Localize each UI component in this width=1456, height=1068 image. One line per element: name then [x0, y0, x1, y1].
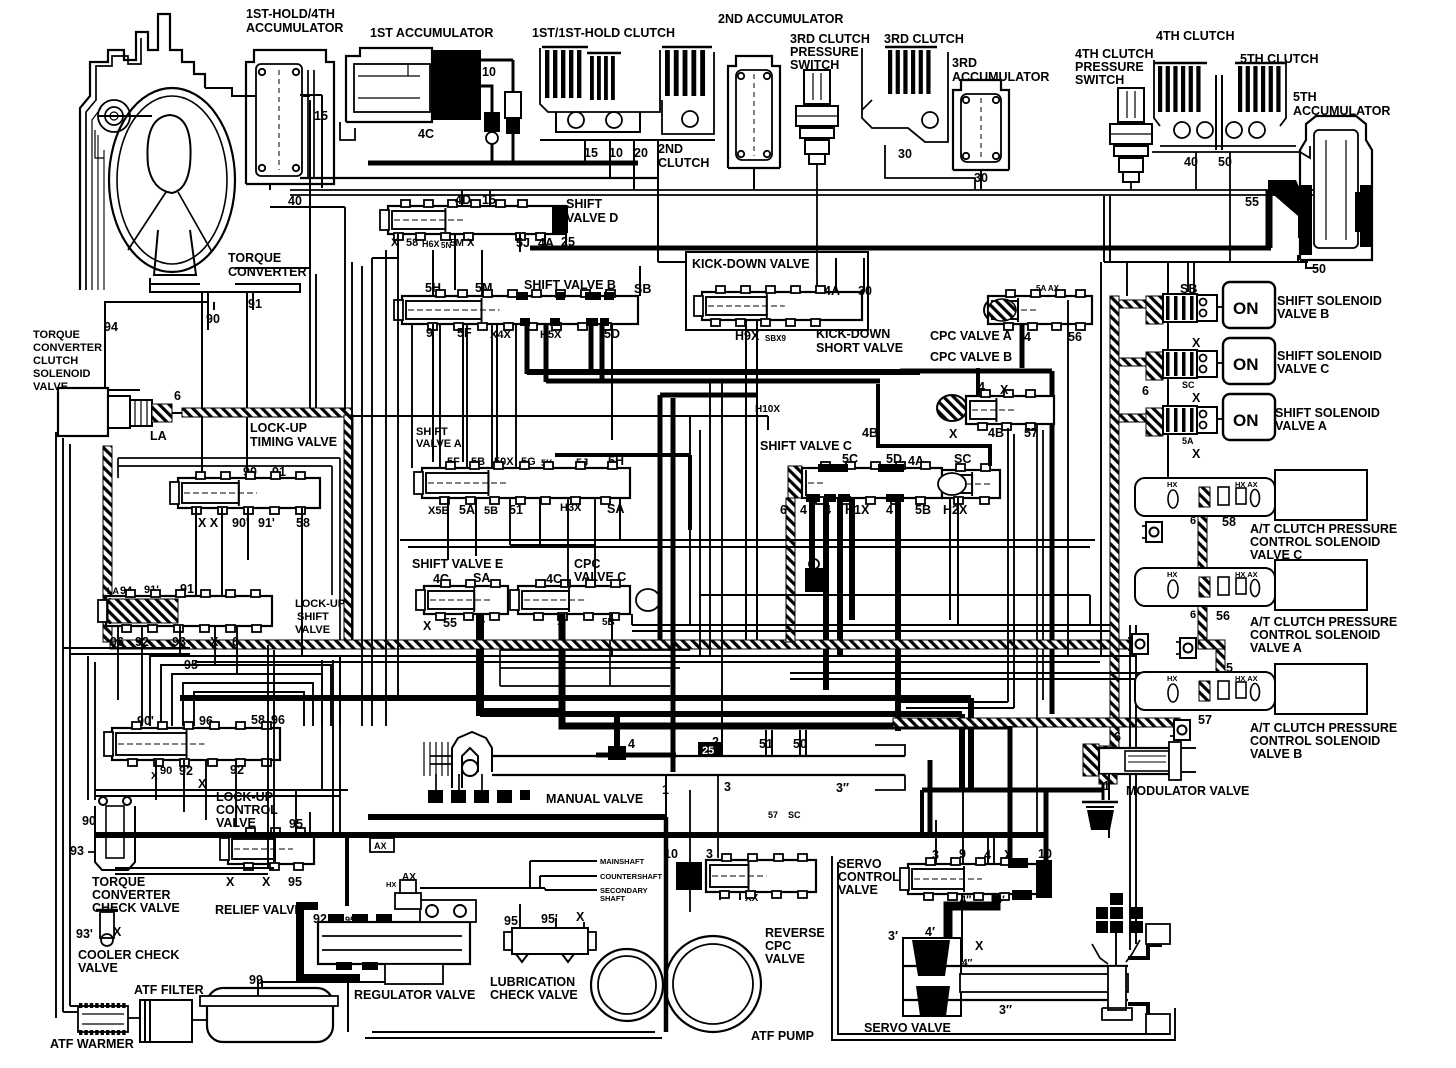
svg-text:SHIFT SOLENOID: SHIFT SOLENOID: [1277, 294, 1382, 308]
svg-text:SA: SA: [607, 502, 624, 516]
wires y625 pair: [632, 624, 1110, 626]
svg-text:10: 10: [1038, 847, 1052, 861]
wire 55 thick elbow: [1266, 190, 1273, 248]
svg-text:ON: ON: [1233, 355, 1259, 374]
wire thick x1010: [1008, 726, 1013, 862]
wire 99: [257, 980, 259, 996]
wire 10 drop: [481, 86, 492, 96]
wire 4th press switch drop: [1130, 182, 1132, 190]
svg-text:40: 40: [288, 194, 302, 208]
svg-text:CONVERTER: CONVERTER: [33, 342, 102, 354]
wires shift valve B down thin: [432, 324, 434, 462]
hatch elbow modulator: [1096, 746, 1112, 756]
solenoid valve TC clutch: [58, 388, 108, 436]
wire servo 4dblprime: [961, 894, 963, 962]
svg-text:25: 25: [561, 235, 575, 249]
svg-text:4TH CLUTCH: 4TH CLUTCH: [1075, 47, 1153, 61]
wire H10X: [250, 415, 768, 417]
hatch right band: [344, 415, 353, 640]
shift solenoid valve B: [1146, 296, 1163, 324]
CPC valve C: [518, 586, 630, 614]
fitting cpcs A2: [1180, 638, 1196, 658]
svg-text:15: 15: [482, 193, 496, 207]
cooler check valve symbol: [100, 912, 114, 938]
hatch branch sol2: [1119, 358, 1147, 366]
svg-text:X: X: [1192, 391, 1201, 405]
svg-text:HX: HX: [386, 880, 396, 889]
svg-text:CLUTCH: CLUTCH: [33, 355, 78, 367]
svg-text:1ST-HOLD/4TH: 1ST-HOLD/4TH: [246, 7, 335, 21]
wire 3rd clutch 30: [885, 145, 975, 190]
kick-down valve enclosure: [686, 252, 868, 330]
svg-text:COOLER CHECK: COOLER CHECK: [78, 948, 179, 962]
hatch long bottom band: [110, 640, 1136, 649]
shift valve D: [388, 206, 566, 234]
shift valve C: [788, 466, 802, 498]
svg-text:TORQUE: TORQUE: [228, 251, 281, 265]
wires manual valve risers: [721, 714, 723, 756]
svg-text:X: X: [467, 237, 475, 249]
kick-down valve: [702, 292, 862, 320]
svg-text:4A: 4A: [824, 284, 840, 298]
svg-text:90': 90': [232, 516, 249, 530]
5th accumulator: [1300, 116, 1372, 260]
svg-text:LOCK-UP: LOCK-UP: [216, 790, 273, 804]
shift valve E: [424, 586, 508, 614]
svg-text:ACCUMULATOR: ACCUMULATOR: [246, 21, 343, 35]
shift valve C right spool: [942, 470, 1000, 498]
fitting below valve C drop: [805, 568, 823, 592]
wire thick x673: [671, 398, 676, 772]
svg-text:15: 15: [314, 109, 328, 123]
wires shift valve D top: [461, 190, 463, 206]
svg-text:30: 30: [974, 171, 988, 185]
svg-text:10: 10: [609, 146, 623, 160]
2nd clutch pack: [662, 46, 712, 49]
wires y790 left pair: [95, 789, 348, 791]
svg-text:58: 58: [406, 237, 418, 249]
wire 91 from converter: [246, 292, 248, 478]
svg-text:4B: 4B: [862, 426, 878, 440]
svg-text:H6X: H6X: [422, 239, 440, 249]
svg-text:A/T CLUTCH PRESSURE: A/T CLUTCH PRESSURE: [1250, 615, 1397, 629]
wires servo control top: [935, 820, 937, 864]
svg-text:LA: LA: [150, 429, 167, 443]
wire thick elbow x660: [660, 393, 757, 398]
svg-text:4: 4: [1024, 330, 1031, 344]
wire left verticals: [62, 438, 64, 1012]
svg-text:4: 4: [886, 503, 893, 517]
wire 57 long drop: [1036, 424, 1038, 835]
svg-text:LOCK-UP: LOCK-UP: [295, 598, 345, 610]
svg-text:57: 57: [1198, 713, 1212, 727]
svg-text:2ND: 2ND: [658, 142, 683, 156]
svg-text:4′′: 4′′: [962, 958, 973, 969]
svg-text:H10X: H10X: [755, 404, 780, 415]
wires shift valve C thick drops: [809, 498, 815, 572]
lock-up shift valve: [106, 596, 272, 626]
svg-text:57: 57: [768, 810, 778, 820]
svg-text:H5X: H5X: [540, 329, 562, 341]
AT cpcs valve C: [1135, 478, 1275, 516]
AT cpcs valve B: [1135, 672, 1275, 710]
svg-text:X: X: [975, 939, 984, 953]
svg-text:6: 6: [1190, 609, 1196, 621]
svg-text:SBX9: SBX9: [765, 334, 786, 343]
svg-text:TORQUE: TORQUE: [33, 329, 80, 341]
AX box: [370, 838, 394, 852]
wire 50 y262: [1104, 261, 1308, 263]
manual valve 25 box: [698, 742, 722, 757]
svg-text:15: 15: [584, 146, 598, 160]
svg-text:A/T CLUTCH PRESSURE: A/T CLUTCH PRESSURE: [1250, 721, 1397, 735]
ATF filter: [140, 1000, 192, 1042]
hatch branch sol1: [1119, 300, 1147, 308]
svg-text:2ND ACCUMULATOR: 2ND ACCUMULATOR: [718, 12, 843, 26]
svg-text:LOCK-UP: LOCK-UP: [250, 421, 307, 435]
svg-text:1ST ACCUMULATOR: 1ST ACCUMULATOR: [370, 26, 493, 40]
svg-text:SC: SC: [1182, 380, 1195, 390]
fitting cpcs B: [1174, 720, 1190, 740]
wires center verticals: [689, 416, 691, 625]
servo control valve: [908, 864, 1038, 894]
svg-text:VALVE B: VALVE B: [1277, 307, 1329, 321]
ATF pump gear small: [591, 949, 663, 1021]
svg-text:SHIFT SOLENOID: SHIFT SOLENOID: [1277, 349, 1382, 363]
svg-text:SHIFT: SHIFT: [297, 611, 329, 623]
modulator lower fitting: [1108, 774, 1110, 800]
wire thick bus y248: [530, 246, 1271, 251]
svg-text:VALVE: VALVE: [838, 883, 878, 897]
wire y595: [700, 594, 1090, 596]
svg-text:10: 10: [482, 65, 496, 79]
wire 90 from converter: [201, 292, 203, 478]
svg-text:CONTROL SOLENOID: CONTROL SOLENOID: [1250, 628, 1380, 642]
svg-text:6: 6: [1190, 515, 1196, 527]
wire bottom border: [365, 1037, 662, 1039]
svg-text:HX: HX: [1167, 480, 1177, 489]
wire 50 drop: [1229, 152, 1231, 262]
wire accumulator down: [269, 184, 271, 190]
torque converter check valve: [95, 806, 135, 870]
svg-text:SHAFT: SHAFT: [600, 894, 625, 903]
svg-text:93': 93': [76, 927, 93, 941]
svg-text:4: 4: [800, 503, 807, 517]
shift valve B: [402, 296, 638, 324]
gear position squares: [1110, 893, 1123, 905]
2nd accumulator: [728, 56, 780, 168]
svg-text:H1X: H1X: [845, 503, 870, 517]
svg-text:VALVE D: VALVE D: [566, 211, 618, 225]
svg-text:COUNTERSHAFT: COUNTERSHAFT: [600, 872, 662, 881]
wire thick top bus y163: [368, 161, 638, 166]
hatch corner: [1198, 640, 1225, 649]
modulator valve: [1083, 744, 1099, 776]
svg-text:MAINSHAFT: MAINSHAFT: [600, 857, 645, 866]
svg-text:5B: 5B: [484, 505, 498, 517]
wire loops lock-up area: [150, 656, 340, 726]
svg-text:CPC VALVE A: CPC VALVE A: [930, 329, 1012, 343]
svg-text:CPC: CPC: [765, 939, 791, 953]
svg-text:REGULATOR VALVE: REGULATOR VALVE: [354, 988, 475, 1002]
reverse CPC valve: [706, 860, 816, 892]
wires shafts: [530, 860, 597, 862]
wire relief feed: [295, 790, 297, 834]
svg-text:95: 95: [504, 914, 518, 928]
wire kick-down feeds: [658, 261, 686, 263]
wires kick-down top: [835, 258, 837, 292]
wire pressure switch drop: [816, 164, 818, 292]
4th clutch pressure switch: [1118, 88, 1144, 122]
wires lockup control drops: [155, 760, 157, 800]
hatch left band: [103, 446, 112, 642]
svg-text:58: 58: [1222, 515, 1236, 529]
svg-text:5J: 5J: [516, 236, 530, 250]
relief valve: [228, 834, 314, 864]
wire thick 1 drop: [562, 614, 1010, 726]
svg-text:55: 55: [1245, 195, 1259, 209]
wire accumulator 15: [321, 95, 323, 188]
regulator valve: [300, 906, 360, 978]
svg-text:56: 56: [1216, 609, 1230, 623]
svg-text:CONVERTER: CONVERTER: [228, 265, 306, 279]
svg-text:5M: 5M: [450, 238, 464, 249]
3rd clutch pressure switch: [804, 70, 830, 104]
svg-text:A/T CLUTCH PRESSURE: A/T CLUTCH PRESSURE: [1250, 522, 1397, 536]
svg-text:AX: AX: [402, 872, 416, 883]
svg-text:90: 90: [160, 765, 172, 777]
3rd clutch: [885, 46, 937, 49]
svg-text:9: 9: [426, 326, 433, 340]
1st/1st-hold clutch: [542, 46, 588, 49]
wires valveA-E links: [567, 498, 569, 586]
svg-text:HX: HX: [1167, 570, 1177, 579]
svg-text:4: 4: [628, 737, 635, 751]
hatch band y722: [893, 718, 1180, 727]
fitting cpcs A1: [1132, 634, 1148, 654]
servo enclosure box: [832, 856, 1175, 1040]
svg-text:LA: LA: [107, 586, 119, 596]
svg-text:56: 56: [1068, 330, 1082, 344]
svg-text:1ST/1ST-HOLD CLUTCH: 1ST/1ST-HOLD CLUTCH: [532, 26, 675, 40]
svg-text:CONTROL SOLENOID: CONTROL SOLENOID: [1250, 734, 1380, 748]
svg-text:SHIFT VALVE E: SHIFT VALVE E: [412, 557, 503, 571]
svg-text:57: 57: [1024, 426, 1038, 440]
svg-text:6: 6: [1114, 730, 1121, 744]
svg-text:X: X: [1192, 336, 1201, 350]
wire thick bus y381: [546, 379, 880, 384]
svg-text:X5B: X5B: [428, 505, 449, 517]
svg-text:REVERSE: REVERSE: [765, 926, 825, 940]
svg-text:4C: 4C: [546, 572, 562, 586]
svg-text:SWITCH: SWITCH: [1075, 73, 1124, 87]
svg-text:ON: ON: [1233, 299, 1259, 318]
svg-text:H3X: H3X: [560, 502, 582, 514]
svg-text:SHIFT: SHIFT: [416, 426, 448, 438]
svg-text:X: X: [423, 619, 432, 633]
AT cpcs valve A: [1135, 568, 1275, 606]
svg-text:10: 10: [664, 847, 678, 861]
svg-text:TORQUE: TORQUE: [92, 875, 145, 889]
svg-text:3RD CLUTCH: 3RD CLUTCH: [790, 32, 870, 46]
svg-text:6: 6: [174, 389, 181, 403]
svg-text:MANUAL VALVE: MANUAL VALVE: [546, 792, 643, 806]
wire CPC A thick drop: [1020, 324, 1025, 368]
svg-text:ATF PUMP: ATF PUMP: [751, 1029, 814, 1043]
svg-text:PRESSURE: PRESSURE: [790, 45, 859, 59]
svg-text:ATF FILTER: ATF FILTER: [134, 983, 204, 997]
svg-text:94: 94: [104, 320, 118, 334]
svg-text:91': 91': [258, 516, 275, 530]
hatch valveB riser: [1216, 648, 1225, 686]
wires timing valve bottom: [195, 508, 197, 596]
wire thick bus y817: [368, 814, 666, 820]
ATF warmer: [78, 1006, 128, 1032]
4th and 5th clutch: [1155, 62, 1207, 65]
wires valve D to B mesh: [371, 258, 373, 726]
fitting cpcs C: [1146, 522, 1162, 542]
wire 40 drop: [1195, 152, 1197, 190]
svg-text:VALVE: VALVE: [78, 961, 118, 975]
svg-text:CONVERTER: CONVERTER: [92, 888, 170, 902]
svg-text:H2X: H2X: [943, 503, 968, 517]
svg-text:X: X: [226, 875, 235, 889]
svg-text:4′: 4′: [925, 925, 935, 939]
wire x666 servo feed: [664, 817, 669, 1032]
ATF pump gear large: [665, 936, 761, 1032]
wire CPC B feed: [976, 368, 980, 396]
svg-text:3RD CLUTCH: 3RD CLUTCH: [884, 32, 964, 46]
wires below bus right: [1103, 196, 1105, 262]
wires 56 lines: [1067, 300, 1069, 656]
wire selector: [1115, 933, 1117, 966]
wire thick bus y455: [555, 453, 690, 457]
svg-text:MODULATOR VALVE: MODULATOR VALVE: [1126, 784, 1249, 798]
wire 94 loop: [105, 302, 208, 390]
wires mid horizontals: [500, 649, 690, 651]
svg-text:CPC VALVE B: CPC VALVE B: [930, 350, 1012, 364]
wire thick x1046 riser: [1044, 790, 1049, 862]
svg-text:HX: HX: [1167, 674, 1177, 683]
wire CPC C 5B drop: [611, 614, 613, 656]
svg-text:92: 92: [179, 764, 193, 778]
svg-text:RELIEF VALVE: RELIEF VALVE: [215, 903, 303, 917]
svg-text:ON: ON: [1233, 411, 1259, 430]
wire thick bus y698: [180, 695, 971, 701]
servo valve: [903, 938, 961, 1016]
wire thick vert x1052: [1050, 371, 1055, 714]
svg-text:99: 99: [249, 973, 263, 987]
svg-text:5B: 5B: [915, 503, 931, 517]
hatch trunk x1113: [1110, 296, 1119, 752]
wire clutch drops: [584, 140, 586, 163]
wire thick y790: [922, 788, 1103, 793]
svg-text:5F: 5F: [457, 326, 472, 340]
hatch vert x790: [786, 498, 795, 642]
3rd accumulator: [953, 80, 1009, 170]
svg-text:4C: 4C: [418, 127, 434, 141]
svg-text:SC: SC: [788, 810, 801, 820]
svg-text:90: 90: [82, 814, 96, 828]
svg-text:SB: SB: [634, 282, 651, 296]
wires y540 pair: [400, 539, 1095, 541]
1st-hold/4th accumulator: [246, 50, 334, 184]
svg-text:CPC: CPC: [574, 557, 600, 571]
svg-text:51: 51: [509, 503, 523, 517]
svg-text:4TH CLUTCH: 4TH CLUTCH: [1156, 29, 1234, 43]
1st accumulator: [346, 48, 432, 122]
svg-text:X: X: [113, 925, 122, 939]
svg-text:X: X: [576, 910, 585, 924]
svg-text:92: 92: [230, 763, 244, 777]
svg-text:VALVE A: VALVE A: [1250, 641, 1302, 655]
wires shift valve A bottom: [447, 498, 449, 560]
lock-up timing valve: [178, 478, 320, 508]
svg-text:CONTROL SOLENOID: CONTROL SOLENOID: [1250, 535, 1380, 549]
svg-text:4B: 4B: [988, 426, 1004, 440]
fitting below 1st accumulator A: [484, 112, 500, 132]
fitting below 1st accumulator B: [505, 92, 521, 118]
gear indicator row: [428, 790, 443, 803]
svg-text:50: 50: [1312, 262, 1326, 276]
svg-text:SHORT VALVE: SHORT VALVE: [816, 341, 903, 355]
wires valveC right drops: [949, 498, 951, 620]
wires x1008 pair: [1007, 428, 1009, 702]
svg-text:SERVO VALVE: SERVO VALVE: [864, 1021, 951, 1035]
lubrication check valve: [512, 928, 588, 954]
svg-text:CHECK VALVE: CHECK VALVE: [490, 988, 578, 1002]
svg-text:KICK-DOWN: KICK-DOWN: [816, 327, 890, 341]
svg-text:SHIFT SOLENOID: SHIFT SOLENOID: [1275, 406, 1380, 420]
wire left box: [267, 645, 269, 868]
wire warmer link: [63, 1011, 78, 1013]
svg-text:ATF WARMER: ATF WARMER: [50, 1037, 134, 1051]
svg-text:VALVE B: VALVE B: [1250, 747, 1302, 761]
svg-text:X: X: [949, 427, 958, 441]
svg-text:20: 20: [634, 146, 648, 160]
svg-text:X X: X X: [198, 516, 219, 530]
svg-text:X4X: X4X: [490, 329, 511, 341]
ATF reservoir: [207, 988, 333, 1042]
wire servo thick 4prime: [948, 894, 996, 940]
svg-text:AX: AX: [374, 841, 387, 851]
svg-text:SERVO: SERVO: [838, 857, 882, 871]
hatch top band: [182, 408, 352, 417]
svg-text:X: X: [262, 875, 271, 889]
svg-text:KICK-DOWN VALVE: KICK-DOWN VALVE: [692, 257, 810, 271]
svg-text:VALVE C: VALVE C: [1277, 362, 1329, 376]
svg-text:30: 30: [898, 147, 912, 161]
wires x1130 pair: [1129, 625, 1131, 950]
wires lockup shift drops: [117, 626, 119, 700]
wires shift valve B down thick: [525, 324, 530, 374]
wire bus y178: [300, 177, 658, 179]
svg-text:3RD: 3RD: [952, 56, 977, 70]
svg-text:TIMING VALVE: TIMING VALVE: [250, 435, 337, 449]
svg-text:VALVE A: VALVE A: [416, 438, 462, 450]
svg-text:5A AX: 5A AX: [1036, 284, 1060, 293]
wire thick bus y714: [480, 711, 962, 717]
wire reverse cpc stub: [719, 892, 721, 900]
wire mesh horizontals: [372, 257, 398, 259]
svg-text:5TH: 5TH: [1293, 90, 1317, 104]
wires manual valve drops: [665, 775, 667, 817]
torque converter: [109, 88, 235, 272]
svg-text:3: 3: [724, 780, 731, 794]
svg-text:95: 95: [288, 875, 302, 889]
wires left joins: [63, 647, 190, 649]
svg-text:SHIFT: SHIFT: [566, 197, 602, 211]
